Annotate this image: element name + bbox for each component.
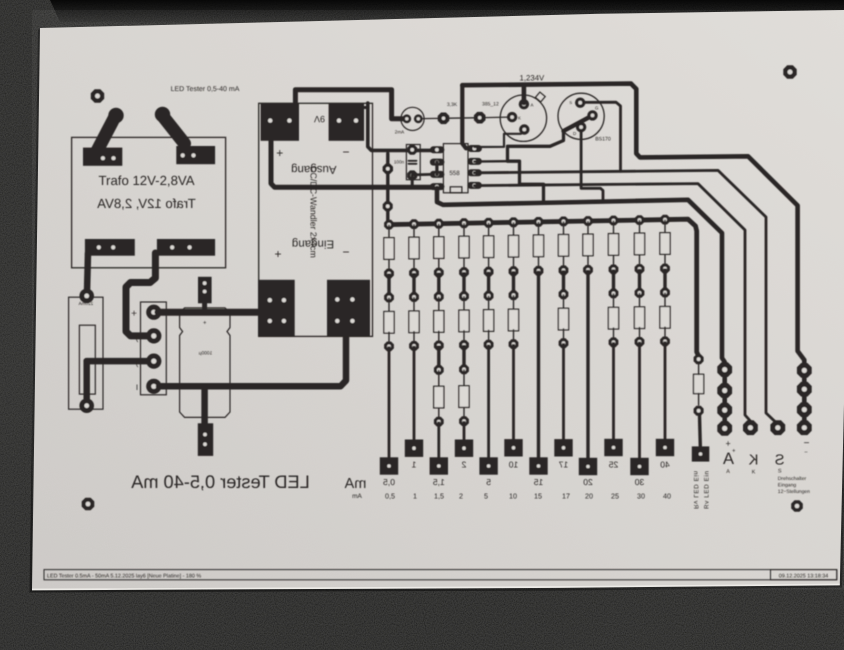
Rv LED square pad xyxy=(692,446,710,461)
node ladder feed xyxy=(386,154,389,223)
wire 1234V to opamp pin8 xyxy=(462,85,471,148)
svg-text:+: + xyxy=(725,439,730,449)
ladder value labels mirrored xyxy=(383,459,670,487)
svg-text:20: 20 xyxy=(583,477,593,487)
dcdc module outline xyxy=(259,103,373,336)
svg-text:1: 1 xyxy=(411,459,416,469)
svg-text:K: K xyxy=(518,116,521,121)
svg-text:−: − xyxy=(342,145,349,159)
svg-text:1,5: 1,5 xyxy=(434,492,444,501)
svg-text:mA: mA xyxy=(344,476,366,492)
svg-text:17: 17 xyxy=(562,492,570,501)
label Drehschalter xyxy=(778,476,810,495)
hex pad S xyxy=(770,420,785,435)
transistor pin labels xyxy=(564,100,599,136)
dcdc pad in+ xyxy=(258,280,295,336)
svg-text:Rv LED Ein: Rv LED Ein xyxy=(692,470,699,509)
svg-text:2: 2 xyxy=(459,492,463,501)
ladder column 2mA xyxy=(455,218,473,457)
transistor Q1 BS170 outline xyxy=(558,93,604,139)
capacitor pin pad bottom xyxy=(198,423,213,456)
wire fuse to terminal 3 xyxy=(87,358,148,365)
svg-text:1000µ: 1000µ xyxy=(199,351,213,357)
ladder column 10mA xyxy=(504,217,522,456)
ladder column 30mA xyxy=(630,215,648,475)
mounting hole top-right xyxy=(783,65,796,78)
wire pin1R to reference xyxy=(474,134,521,147)
svg-text:Trafo 12V, 2,8VA: Trafo 12V, 2,8VA xyxy=(97,196,196,211)
wire ladder bus xyxy=(388,219,699,356)
capacitor pin pad top xyxy=(198,277,212,304)
capacitor C2 outline xyxy=(406,145,420,180)
transistor pad S xyxy=(575,98,585,108)
svg-text:+: + xyxy=(732,449,736,455)
wire D net xyxy=(581,128,603,200)
reference tab xyxy=(535,92,545,102)
wire pin2R stub xyxy=(474,160,507,163)
svg-text:17: 17 xyxy=(559,459,569,469)
svg-text:5: 5 xyxy=(486,477,491,487)
svg-text:mA: mA xyxy=(352,493,362,500)
svg-text:S: S xyxy=(778,468,782,474)
op-amp pin L1 xyxy=(430,146,445,153)
op-amp pin L3 xyxy=(430,171,445,178)
wire 2mA to R 3K3 xyxy=(423,117,439,119)
reference pad center xyxy=(519,124,529,134)
capacitor C2 symbol xyxy=(409,160,417,162)
wire Rv LED to square xyxy=(698,415,702,446)
svg-text:40: 40 xyxy=(660,459,670,469)
svg-text:Trafo 12V-2,8VA: Trafo 12V-2,8VA xyxy=(98,173,194,188)
fuse F1 outline xyxy=(69,297,103,409)
svg-text:−: − xyxy=(804,438,810,449)
svg-text:A: A xyxy=(726,469,730,475)
svg-text:Drehschalter: Drehschalter xyxy=(778,476,807,482)
ladder column 20mA xyxy=(579,216,597,475)
ladder column 17mA xyxy=(554,217,572,457)
svg-text:S: S xyxy=(569,100,572,105)
transformer pad block top-left xyxy=(83,148,122,166)
svg-text:0,5: 0,5 xyxy=(385,492,395,501)
wire 385 pad to K xyxy=(485,116,508,119)
darker top band xyxy=(50,0,844,26)
svg-text:+: + xyxy=(131,309,137,320)
transformer primary pad 2 xyxy=(155,107,170,122)
wire A to 1234V rail xyxy=(522,85,527,103)
wire C2 to rail xyxy=(411,175,414,186)
transformer pad block bottom-right xyxy=(157,239,215,256)
svg-text:A: A xyxy=(531,103,534,108)
terminal pad + xyxy=(146,305,161,320)
wire 9V rail to 2mA jack xyxy=(295,90,403,119)
svg-text:D: D xyxy=(573,131,576,136)
transformer pad block bottom-left xyxy=(85,239,135,256)
mounting hole top-left xyxy=(91,89,104,102)
resistor 3,3K pad xyxy=(438,113,450,125)
svg-text:12−Stellungen: 12−Stellungen xyxy=(778,489,810,495)
svg-text:+: + xyxy=(274,247,281,261)
pad 385 xyxy=(474,112,486,124)
op-amp pin L2 xyxy=(430,159,445,166)
transformer T1 outline xyxy=(72,137,226,267)
hex pad K xyxy=(743,420,758,435)
mounting hole bottom-left xyxy=(82,498,95,511)
wire transformer to fuse xyxy=(87,253,88,292)
terminal block outline xyxy=(141,302,167,395)
Rv LED labels xyxy=(692,470,711,509)
wire op-amp pins 2-3 link xyxy=(435,162,438,174)
svg-text:+: + xyxy=(203,321,207,327)
reference pad A xyxy=(519,99,529,109)
jack 2mA pad left xyxy=(402,114,411,123)
capacitor C1 outline xyxy=(180,308,230,418)
svg-text:1,5: 1,5 xyxy=(433,477,445,487)
svg-text:2mA: 2mA xyxy=(395,130,405,135)
svg-text:1,234V: 1,234V xyxy=(520,73,546,82)
svg-text:Rv LED Ein: Rv LED Ein xyxy=(704,470,711,509)
transformer primary trace 1 xyxy=(97,118,115,152)
wire out- to 100n rail xyxy=(368,103,434,150)
hex column A+ xyxy=(717,362,732,377)
capacitor C2 pad bottom xyxy=(407,170,417,180)
ladder value labels xyxy=(385,492,671,501)
svg-text:DC/DC-Wandler 2x4cm: DC/DC-Wandler 2x4cm xyxy=(308,166,318,258)
reference pad K xyxy=(507,112,517,122)
Rv LED resistor xyxy=(694,374,704,393)
op-amp U1 notch xyxy=(450,187,462,193)
wire out+ down to opamp rail xyxy=(271,138,436,187)
svg-text:385_12: 385_12 xyxy=(482,101,499,107)
pad ladder feed 1 xyxy=(383,164,393,174)
wire gate net xyxy=(564,115,593,131)
pad ladder feed 2 xyxy=(383,201,393,211)
op-amp U1 outline xyxy=(443,144,468,193)
op-amp pin R2 xyxy=(467,158,482,165)
svg-text:25: 25 xyxy=(609,459,619,469)
svg-text:100n: 100n xyxy=(394,160,405,165)
wire terminal I rail xyxy=(159,334,346,386)
svg-text:25: 25 xyxy=(611,492,619,501)
svg-text:09.12.2025 13:18:34: 09.12.2025 13:18:34 xyxy=(779,573,828,579)
mounting hole bottom-right xyxy=(791,500,803,512)
svg-text:20: 20 xyxy=(585,492,593,501)
svg-text:BS170: BS170 xyxy=(595,136,611,142)
ladder column 1mA xyxy=(405,219,423,457)
terminal labels xyxy=(131,309,139,393)
jack 2mA outline xyxy=(401,107,424,130)
svg-text:LED Tester 0,5-40 mA: LED Tester 0,5-40 mA xyxy=(171,86,240,93)
op-amp pin R4 xyxy=(467,182,482,189)
terminal pad 3 xyxy=(146,354,161,369)
fuse pad top xyxy=(79,289,94,304)
svg-text:10: 10 xyxy=(509,492,517,501)
wire transformer to terminal 2 xyxy=(126,253,155,336)
transformer pad block top-right xyxy=(176,146,215,164)
svg-text:LED Tester 0.5mA - 50mA 5.12.: LED Tester 0.5mA - 50mA 5.12.2025 lay6 [… xyxy=(47,573,201,579)
svg-text:Eingang: Eingang xyxy=(778,483,797,489)
svg-text:3,3K: 3,3K xyxy=(447,102,458,108)
fuse F1 inner outline xyxy=(79,325,95,394)
wire C2 to op-amp pin3 xyxy=(412,173,431,176)
ladder column 5mA xyxy=(479,218,497,475)
dcdc pad out+ xyxy=(261,103,299,141)
ladder column 1,5mA xyxy=(430,219,448,475)
terminal pad 2 xyxy=(146,328,161,343)
Rv LED column pad 2 xyxy=(694,406,704,416)
svg-text:1: 1 xyxy=(413,492,417,501)
transistor pad G xyxy=(587,110,597,120)
wire S net xyxy=(580,102,620,171)
svg-text:2: 2 xyxy=(461,459,466,469)
svg-text:9V: 9V xyxy=(314,114,325,124)
ladder column 25mA xyxy=(604,216,622,457)
svg-text:30: 30 xyxy=(635,477,645,487)
svg-text:5: 5 xyxy=(484,492,488,501)
svg-text:15: 15 xyxy=(534,492,542,501)
fuse pad bottom xyxy=(79,398,94,413)
op-amp pin R1 xyxy=(467,145,482,152)
svg-text:S: S xyxy=(775,452,785,468)
svg-text:−: − xyxy=(342,245,349,259)
transformer primary trace 2 xyxy=(164,117,185,144)
svg-text:(: ( xyxy=(136,359,139,368)
svg-text:K: K xyxy=(752,469,756,475)
jack 2mA pad right xyxy=(414,114,423,123)
wire terminal + to dcdc in+ xyxy=(158,309,262,316)
svg-text:(: ( xyxy=(136,334,139,343)
reference pin labels xyxy=(518,103,534,121)
svg-text:K: K xyxy=(748,453,758,469)
svg-text:+: + xyxy=(276,146,283,160)
wire A rail xyxy=(437,188,725,428)
Rv LED column pad 1 xyxy=(694,354,704,364)
ladder column 0,5mA xyxy=(380,220,398,475)
op-amp pin R3 xyxy=(467,169,482,176)
svg-text:I: I xyxy=(136,383,138,392)
reference D1 LM385 outline xyxy=(500,95,546,141)
svg-text:−: − xyxy=(804,450,808,456)
capacitor C2 pad top xyxy=(407,145,417,155)
dcdc pad out- xyxy=(329,103,365,141)
svg-text:LED Tester 0,5-40 mA: LED Tester 0,5-40 mA xyxy=(130,472,309,492)
paper bottom edge highlight xyxy=(32,585,840,590)
transformer primary pad 1 xyxy=(108,108,123,123)
svg-text:0,5: 0,5 xyxy=(383,477,395,487)
ladder column 40mA xyxy=(656,215,674,456)
wire 3K3 to 385 xyxy=(449,117,475,119)
svg-text:10: 10 xyxy=(509,459,519,469)
svg-text:40: 40 xyxy=(663,492,671,501)
wire cap plus stub xyxy=(202,302,207,311)
wire 1,234V rail xyxy=(462,84,804,428)
wire K net xyxy=(474,184,750,428)
footer bar xyxy=(44,570,837,580)
terminal pad I xyxy=(146,379,161,394)
hex column minus xyxy=(797,363,812,378)
op-amp pin L4 xyxy=(430,183,445,190)
ladder column 15mA xyxy=(529,217,547,475)
svg-text:30: 30 xyxy=(637,492,645,501)
pcb artwork xyxy=(44,65,837,580)
svg-text:G: G xyxy=(595,106,599,111)
dcdc pad in- xyxy=(327,280,370,336)
wire capacitor minus xyxy=(201,386,208,424)
transistor pad D xyxy=(576,122,586,132)
svg-text:558: 558 xyxy=(449,170,460,177)
svg-text:15: 15 xyxy=(534,477,544,487)
